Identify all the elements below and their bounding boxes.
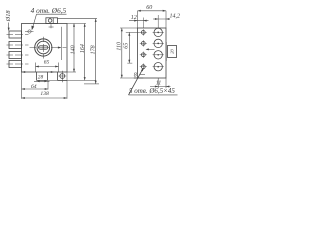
svg-text:178: 178: [90, 45, 96, 54]
main bore h centerline: [30, 47, 57, 49]
svg-text:11: 11: [156, 81, 162, 87]
extension y72 for 140: [67, 71, 76, 73]
dim line 28: [34, 80, 50, 82]
boss B hole: [60, 74, 65, 79]
top boss hole: [48, 19, 52, 23]
vertical dim 164: [84, 24, 86, 81]
label 4 отв Ø6,5: [31, 6, 67, 15]
boss B centerlines: [61, 71, 63, 83]
label 28: [38, 75, 44, 81]
svg-text:12: 12: [131, 15, 137, 21]
svg-text:65: 65: [124, 43, 130, 49]
row 4 big hole: [154, 62, 162, 70]
side box inner line: [165, 42, 167, 61]
stub 2: [9, 42, 22, 49]
row 1 big hole: [154, 28, 162, 36]
label 5 отв Ø6,5x45: [129, 87, 175, 95]
row 1 small hole: [141, 31, 145, 35]
extension from body top (140,164): [67, 23, 86, 25]
extension y80.4 to right dims: [48, 79, 96, 81]
svg-text:14,2: 14,2: [169, 12, 180, 19]
leader shelf: [37, 13, 67, 15]
row 2 small hole: [141, 42, 145, 46]
dim 11: [156, 81, 162, 87]
dim 12: [131, 15, 137, 21]
side box label: [170, 49, 175, 54]
dim 65: [128, 32, 130, 63]
stub 4 centerline: [7, 63, 29, 65]
svg-text:4 отв. Ø6,5: 4 отв. Ø6,5: [31, 6, 67, 15]
arrow pointing left at small hole column: [147, 48, 155, 50]
leader shelf: [129, 94, 178, 96]
stub 4: [9, 61, 22, 68]
svg-text:65: 65: [44, 60, 50, 66]
side box: [168, 46, 177, 58]
dim 138: [40, 91, 49, 97]
top boss: [46, 18, 58, 24]
bottom dim arrows on body bottom line: [22, 71, 26, 73]
body outline: [138, 28, 167, 78]
stub 1: [9, 31, 22, 38]
dim 14,2: [169, 12, 180, 19]
dim 8: [134, 73, 137, 79]
vertical dim 140: [73, 24, 75, 73]
stub 1 centerline: [7, 34, 29, 36]
dim 65 (bottom): [36, 66, 59, 68]
leader line: [129, 69, 144, 95]
row 3 small hole: [141, 53, 145, 57]
stub 2 centerline: [7, 44, 29, 46]
label Ø18 (rotated): [5, 10, 12, 23]
bottom boss B: [58, 72, 68, 80]
bottom boss A: [37, 72, 48, 80]
svg-text:110: 110: [117, 42, 123, 51]
svg-text:Ø18: Ø18: [5, 10, 12, 23]
corner hole top-left: [28, 30, 31, 33]
extension y83.9: [84, 83, 99, 85]
extension line from boss top (178): [58, 18, 98, 20]
vertical dim 178: [95, 19, 97, 84]
stub 3 centerline: [7, 54, 29, 56]
row 4 small hole: [141, 65, 145, 69]
row 2 big hole: [154, 39, 162, 47]
svg-text:140: 140: [70, 45, 77, 54]
main bore inner circle: [37, 41, 50, 54]
svg-text:164: 164: [79, 44, 86, 53]
main bore outer circle: [35, 39, 52, 56]
leader for Ø18: [8, 23, 10, 31]
dim 110: [121, 28, 123, 78]
column extension lines above body: [142, 18, 144, 29]
dim 60: [146, 5, 152, 11]
arrow to internal line: [57, 47, 67, 49]
main bore v centerline: [42, 37, 44, 59]
internal vertical line: [61, 27, 63, 60]
svg-text:138: 138: [40, 91, 49, 97]
row 3 big hole: [154, 51, 162, 59]
top boss centerline: [50, 24, 52, 28]
svg-text:28: 28: [38, 75, 44, 81]
svg-text:5 отв. Ø6,5×45: 5 отв. Ø6,5×45: [129, 87, 175, 95]
leader line: [32, 14, 36, 29]
svg-text:20: 20: [170, 49, 175, 54]
svg-text:60: 60: [146, 5, 152, 11]
stub 3: [9, 52, 22, 59]
dim 64: [31, 84, 37, 90]
slot: [39, 46, 48, 49]
body outline: [22, 24, 68, 73]
